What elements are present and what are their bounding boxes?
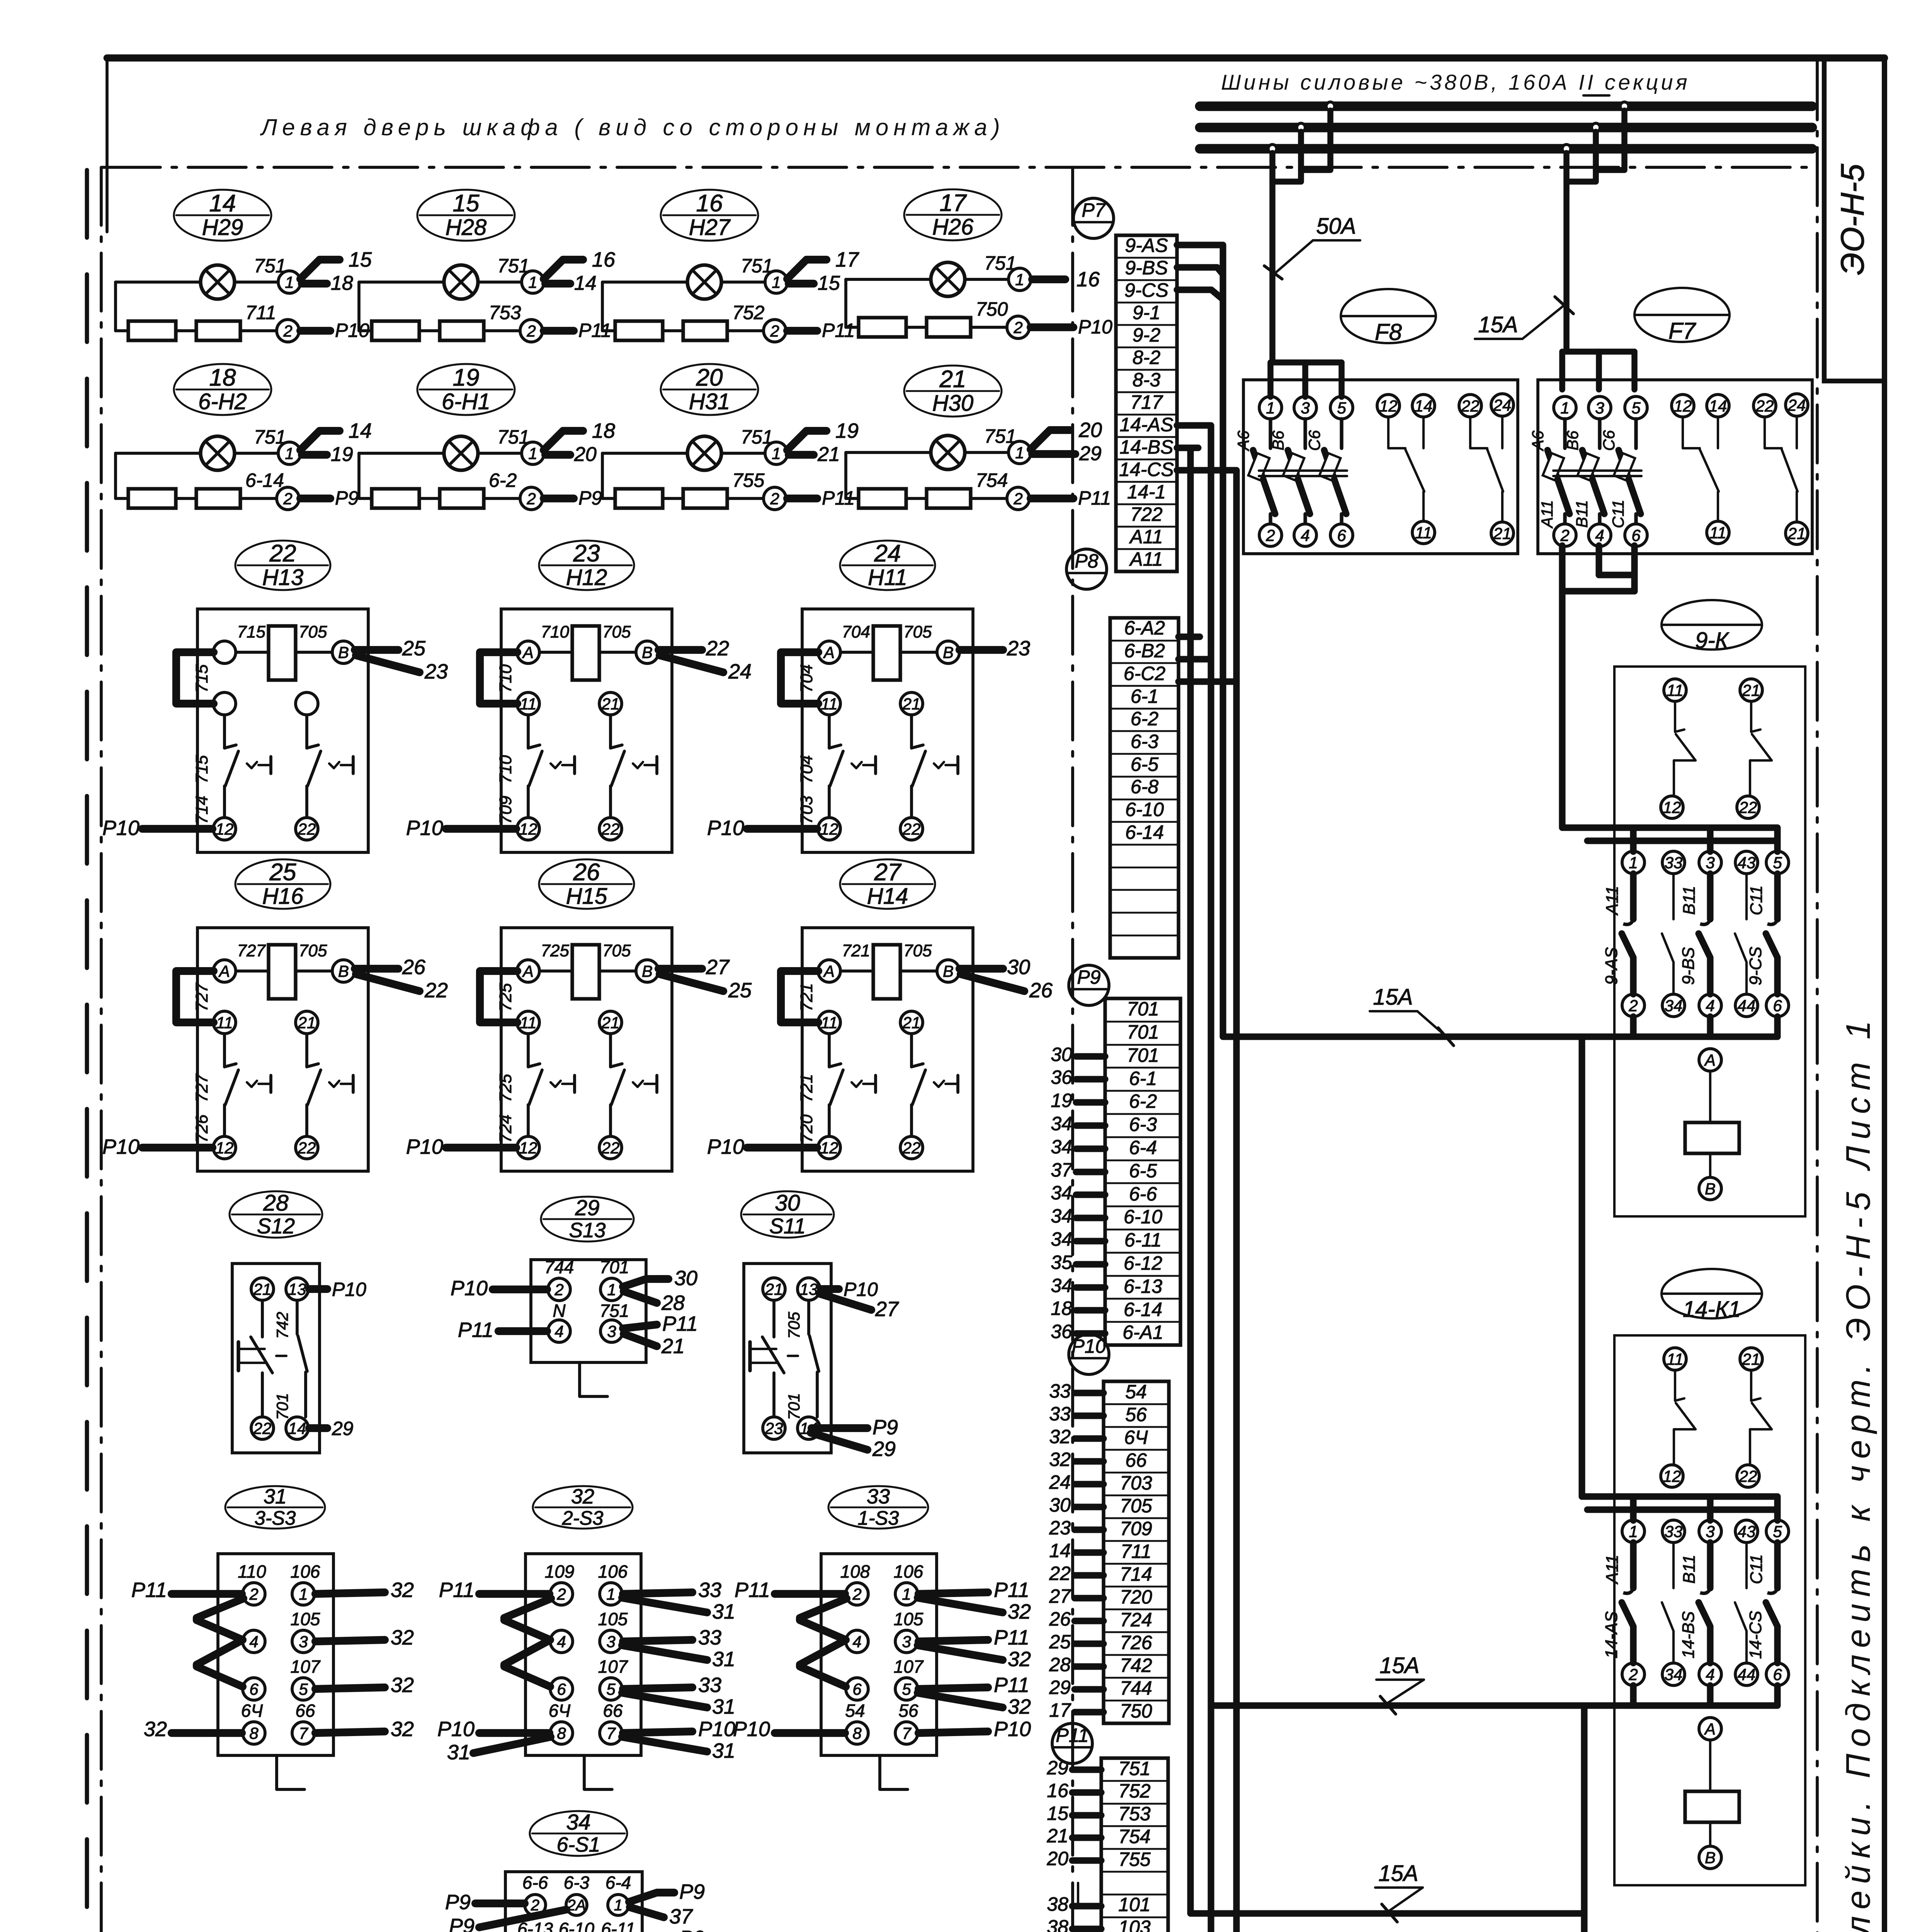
lamp Н26 — [931, 262, 965, 296]
wire bus to F7 — [1596, 111, 1624, 170]
svg-text:22: 22 — [601, 820, 620, 838]
svg-text:22: 22 — [253, 1419, 272, 1437]
svg-text:Н26: Н26 — [932, 214, 974, 240]
coil of 22 — [269, 626, 296, 680]
svg-text:27: 27 — [706, 956, 730, 979]
svg-text:Р10: Р10 — [406, 1135, 443, 1158]
svg-text:27: 27 — [874, 859, 902, 886]
wire — [918, 1640, 988, 1641]
svg-text:750: 750 — [976, 298, 1008, 320]
svg-text:12: 12 — [519, 820, 537, 838]
svg-text:6-14: 6-14 — [1124, 1299, 1162, 1320]
svg-text:S13: S13 — [569, 1219, 606, 1242]
terminal 22 of 24 — [900, 818, 923, 840]
main terminal 4 of 14-К1 — [1699, 1663, 1721, 1685]
svg-text:32: 32 — [571, 1485, 594, 1508]
svg-text:724: 724 — [1120, 1609, 1152, 1631]
svg-text:101: 101 — [1118, 1894, 1150, 1915]
wire stub — [1076, 1122, 1105, 1129]
coil terminal A of 9-К — [1699, 1049, 1721, 1071]
terminal 11 of 27 — [818, 1011, 840, 1034]
svg-text:С11: С11 — [1747, 1554, 1766, 1584]
svg-text:6-А2: 6-А2 — [1124, 617, 1165, 639]
wire stub — [1076, 1238, 1105, 1244]
svg-text:721: 721 — [797, 983, 816, 1011]
wire — [787, 495, 817, 502]
svg-text:9-1: 9-1 — [1133, 302, 1160, 323]
svg-text:33: 33 — [698, 1626, 721, 1649]
terminal 11 of 26 — [517, 1011, 539, 1034]
wire F7 outputs — [1559, 546, 1565, 591]
aux contact — [1388, 417, 1405, 448]
svg-text:В11: В11 — [1680, 886, 1699, 915]
svg-text:22: 22 — [902, 820, 921, 838]
svg-text:7: 7 — [299, 1724, 308, 1742]
svg-text:14-СS: 14-СS — [1746, 1611, 1765, 1659]
svg-text:4: 4 — [554, 1322, 563, 1340]
svg-text:21: 21 — [601, 695, 620, 713]
wire — [309, 1285, 327, 1293]
svg-text:6-2: 6-2 — [1129, 1090, 1157, 1112]
svg-text:В: В — [943, 962, 954, 980]
svg-text:27: 27 — [875, 1298, 899, 1321]
cabinet door outline left — [100, 167, 103, 1932]
svg-text:701: 701 — [1127, 1044, 1159, 1066]
aux terminal 22 — [1459, 395, 1481, 417]
lamp Н27 — [687, 265, 721, 299]
svg-text:750: 750 — [1120, 1700, 1152, 1722]
main terminal 3 of 14-К1 — [1699, 1520, 1721, 1543]
terminal strip П10 — [1104, 1381, 1169, 1723]
glue line (линия склейки) — [1816, 62, 1819, 1932]
svg-text:726: 726 — [192, 1114, 211, 1143]
svg-text:2: 2 — [1628, 997, 1638, 1015]
svg-text:8: 8 — [249, 1724, 259, 1742]
svg-text:754: 754 — [976, 469, 1008, 491]
wire — [918, 1592, 988, 1594]
wire stub — [1076, 1261, 1105, 1267]
svg-text:6-Н1: 6-Н1 — [442, 389, 490, 414]
wire P9 — [475, 1900, 525, 1907]
svg-text:16: 16 — [1077, 268, 1100, 291]
svg-text:В11: В11 — [1573, 500, 1591, 528]
svg-text:6-8: 6-8 — [1131, 776, 1158, 798]
fuse terminal 4 — [1294, 524, 1316, 546]
wire F7 to 9-K — [1562, 591, 1777, 828]
fuse block F8 — [1243, 380, 1518, 554]
aux terminal 11 of 14-К1 — [1664, 1348, 1686, 1370]
svg-text:29: 29 — [1079, 442, 1102, 465]
wire fork — [787, 260, 827, 279]
resistor of 20 — [683, 489, 727, 508]
svg-text:720: 720 — [1120, 1586, 1152, 1608]
wire — [480, 652, 517, 704]
svg-text:28: 28 — [1049, 1654, 1071, 1675]
fuse terminal 3 — [1294, 396, 1316, 419]
terminal 11 of 25 — [213, 1011, 236, 1034]
wire — [172, 1729, 242, 1737]
wire to P10 — [446, 1144, 516, 1151]
fixed contact — [1707, 1543, 1713, 1588]
svg-text:21: 21 — [298, 1014, 316, 1032]
aux terminal 14 — [1707, 395, 1729, 417]
svg-text:6-13: 6-13 — [1124, 1276, 1162, 1297]
svg-text:21: 21 — [661, 1335, 685, 1358]
svg-text:19: 19 — [835, 419, 859, 442]
svg-text:1: 1 — [772, 444, 781, 463]
bus junction — [1592, 123, 1600, 132]
wire stub — [1075, 1435, 1104, 1442]
wire — [1709, 1822, 1711, 1846]
svg-text:701: 701 — [273, 1393, 291, 1420]
wire fork — [658, 646, 702, 654]
wire fork — [959, 646, 1003, 654]
wire — [479, 1729, 549, 1737]
svg-text:Р11: Р11 — [1056, 1725, 1088, 1746]
svg-text:12: 12 — [1663, 1467, 1681, 1485]
terminal 11 of 23 — [517, 692, 539, 715]
svg-text:32: 32 — [1008, 1648, 1031, 1671]
svg-text:4: 4 — [1706, 997, 1714, 1015]
wire stub — [1075, 1686, 1104, 1692]
svg-text:705: 705 — [1120, 1495, 1152, 1517]
NC contact — [527, 715, 530, 748]
svg-text:Р9: Р9 — [679, 1927, 705, 1932]
terminal 12 of 24 — [818, 818, 840, 840]
svg-text:Н27: Н27 — [689, 215, 731, 240]
svg-text:34: 34 — [566, 1810, 590, 1835]
svg-text:9-2: 9-2 — [1133, 324, 1160, 346]
wire upper bus feed 14-K1 — [1582, 1493, 1777, 1500]
contactor 9-К — [1587, 600, 1805, 1216]
svg-text:Р10: Р10 — [733, 1718, 770, 1741]
svg-text:17: 17 — [940, 190, 967, 216]
wire bundle 14-phase — [1177, 425, 1211, 1706]
svg-text:32: 32 — [391, 1718, 414, 1741]
svg-text:106: 106 — [598, 1561, 628, 1582]
svg-text:5: 5 — [606, 1680, 616, 1698]
svg-text:21: 21 — [1493, 524, 1512, 543]
wire — [357, 282, 361, 331]
indicator lamp circuit 15 Н28 — [359, 190, 616, 342]
svg-text:105: 105 — [291, 1609, 320, 1629]
svg-text:22: 22 — [298, 1139, 316, 1157]
fixed contact — [1672, 1543, 1675, 1588]
svg-text:6-14: 6-14 — [1125, 821, 1164, 843]
resistor of 16 — [615, 321, 663, 340]
svg-text:9-СS: 9-СS — [1746, 947, 1765, 985]
terminal 1 of 34 — [608, 1895, 629, 1915]
wire fork — [300, 260, 340, 279]
coil terminal B of 14-К1 — [1699, 1846, 1721, 1869]
svg-text:Р9: Р9 — [449, 1915, 474, 1932]
wire stub P8 — [1179, 656, 1211, 662]
svg-text:14-1: 14-1 — [1127, 481, 1166, 503]
svg-text:7: 7 — [606, 1724, 616, 1742]
cam switch contact — [772, 1300, 776, 1337]
svg-text:25: 25 — [402, 637, 426, 660]
svg-text:15: 15 — [453, 190, 480, 217]
wire stub — [1072, 1766, 1101, 1773]
relay 24 Н11 — [707, 540, 1030, 852]
svg-text:2: 2 — [770, 322, 779, 340]
aux terminal 12 — [1672, 395, 1694, 417]
svg-text:11: 11 — [520, 695, 537, 713]
svg-text:Н16: Н16 — [262, 884, 304, 909]
relay 27 Н14 — [707, 859, 1053, 1171]
svg-text:23: 23 — [424, 660, 448, 683]
svg-text:14-ВS: 14-ВS — [1120, 436, 1173, 458]
wire bundle 9-phase — [1177, 245, 1223, 1037]
wire — [781, 971, 818, 1022]
NC contact — [223, 1034, 226, 1067]
svg-text:34: 34 — [1051, 1182, 1072, 1204]
svg-text:11: 11 — [520, 1014, 537, 1032]
resistor of 17 — [927, 318, 971, 337]
wire stub — [1075, 1503, 1104, 1510]
svg-text:703: 703 — [797, 796, 816, 824]
terminal 7 of 33 — [895, 1722, 918, 1744]
svg-text:6-10: 6-10 — [559, 1919, 594, 1932]
terminal B of 23 — [636, 641, 658, 663]
aux contact — [1750, 1370, 1752, 1401]
fuse terminal 2 — [1554, 524, 1576, 546]
svg-text:1: 1 — [1629, 854, 1638, 872]
svg-text:751: 751 — [600, 1301, 629, 1321]
wire stub P8 — [1179, 633, 1190, 640]
resistor of 21 — [859, 489, 906, 508]
svg-text:31: 31 — [447, 1741, 470, 1764]
svg-text:6-4: 6-4 — [1129, 1137, 1157, 1158]
wire — [544, 495, 574, 502]
svg-text:32: 32 — [391, 1578, 414, 1602]
wire — [623, 1640, 692, 1641]
svg-text:704: 704 — [797, 755, 816, 783]
svg-text:Р10: Р10 — [707, 1135, 744, 1158]
svg-text:5: 5 — [902, 1680, 911, 1698]
svg-text:725: 725 — [541, 941, 570, 960]
relay 23 Н12 — [406, 540, 752, 852]
svg-text:720: 720 — [797, 1114, 816, 1143]
svg-text:А: А — [522, 962, 534, 980]
connector Р8 — [1066, 549, 1107, 589]
terminal strip П7 — [1116, 235, 1177, 571]
wire — [544, 327, 574, 335]
svg-text:Р11: Р11 — [994, 1673, 1029, 1697]
svg-text:2-S3: 2-S3 — [562, 1507, 604, 1529]
fuse — [1563, 419, 1566, 448]
svg-text:В11: В11 — [1680, 1554, 1699, 1583]
indicator lamp circuit 20 Н31 — [602, 364, 859, 510]
svg-text:В: В — [338, 962, 349, 980]
terminal 3 of 32 — [600, 1630, 622, 1653]
wire stub — [1177, 264, 1198, 270]
svg-text:28: 28 — [263, 1190, 289, 1216]
svg-text:715: 715 — [237, 622, 266, 641]
lamp Н28 — [444, 265, 478, 299]
svg-text:31: 31 — [712, 1648, 735, 1671]
svg-text:А11: А11 — [1538, 500, 1556, 529]
lamp Н30 — [931, 435, 965, 469]
svg-text:34: 34 — [1665, 997, 1683, 1015]
terminal 2 of 21 — [1007, 487, 1029, 510]
resistor of 19 — [440, 489, 484, 508]
svg-text:724: 724 — [496, 1114, 515, 1143]
terminal 2 of 20 — [764, 487, 786, 510]
svg-text:14: 14 — [574, 272, 597, 294]
svg-text:6-2: 6-2 — [489, 469, 517, 491]
fuse terminal 5 — [1625, 396, 1647, 419]
svg-text:107: 107 — [598, 1656, 628, 1677]
svg-text:А: А — [1704, 1051, 1716, 1069]
svg-text:22: 22 — [269, 540, 296, 567]
svg-text:6Ч: 6Ч — [241, 1701, 264, 1721]
svg-text:22: 22 — [601, 1139, 620, 1157]
svg-text:19: 19 — [453, 364, 480, 391]
wire stub — [1177, 444, 1198, 451]
svg-text:22: 22 — [902, 1139, 921, 1157]
svg-text:701: 701 — [600, 1257, 629, 1277]
svg-text:44: 44 — [1738, 997, 1756, 1015]
terminal strip П9 — [1105, 998, 1180, 1345]
wire lower bus — [1630, 1017, 1636, 1037]
wire to P10 — [747, 825, 817, 833]
wire to P10 — [142, 825, 213, 833]
wire stub — [1075, 1572, 1104, 1578]
svg-text:6-3: 6-3 — [1129, 1114, 1157, 1135]
terminal 23 of 30 — [763, 1417, 785, 1439]
wire stub P8 — [1179, 678, 1236, 685]
main terminal 2 of 14-К1 — [1622, 1663, 1645, 1685]
terminal B of 27 — [937, 960, 959, 982]
wire — [315, 1731, 385, 1733]
svg-text:8-2: 8-2 — [1133, 347, 1160, 368]
terminal 1 of 17 — [1009, 268, 1031, 291]
resistor of 18 — [196, 489, 240, 508]
wire to P10 — [142, 1144, 213, 1151]
svg-text:14-АS: 14-АS — [1602, 1611, 1621, 1658]
wire — [1031, 323, 1073, 331]
wire lower bus — [1630, 1685, 1636, 1706]
terminal 2А of 34 — [566, 1895, 587, 1915]
wire stub — [1075, 1458, 1104, 1464]
wire — [480, 971, 517, 1022]
svg-text:17: 17 — [835, 248, 859, 271]
svg-text:6-S1: 6-S1 — [557, 1833, 600, 1856]
selector switch 31 3-S3 — [131, 1485, 414, 1789]
fuse terminal 6 — [1330, 524, 1353, 546]
terminal 7 of 32 — [600, 1722, 622, 1744]
terminal B of 26 — [636, 960, 658, 982]
wire stub — [1072, 1812, 1101, 1818]
coil of 14-К1 — [1685, 1791, 1739, 1822]
wire — [114, 453, 117, 498]
svg-text:34: 34 — [1051, 1275, 1072, 1296]
svg-text:21: 21 — [902, 695, 921, 713]
svg-text:21: 21 — [253, 1280, 272, 1298]
bus junction — [1326, 102, 1335, 111]
wire stub — [1076, 1145, 1105, 1152]
svg-text:23: 23 — [765, 1419, 783, 1437]
svg-text:34: 34 — [1051, 1136, 1072, 1158]
aux terminal 12 of 9-К — [1661, 796, 1683, 818]
contactor 14-К1 — [1587, 1269, 1805, 1885]
terminal 21 of 22 — [296, 692, 318, 715]
svg-text:12: 12 — [216, 1139, 234, 1157]
terminal 22 of 26 — [599, 1136, 622, 1159]
svg-text:17: 17 — [1049, 1699, 1071, 1721]
svg-text:Р10: Р10 — [707, 816, 744, 840]
wire — [623, 1687, 692, 1689]
svg-text:26: 26 — [402, 956, 426, 979]
svg-text:66: 66 — [295, 1701, 315, 1721]
svg-text:1: 1 — [299, 1585, 308, 1603]
svg-text:1: 1 — [902, 1585, 911, 1603]
wire fork — [544, 260, 583, 279]
svg-text:714: 714 — [1120, 1563, 1152, 1585]
selector switch 32 2-S3 — [437, 1485, 735, 1789]
resistor of 14 — [196, 321, 240, 340]
wire — [1709, 1071, 1711, 1122]
wire stub — [1077, 1883, 1079, 1905]
svg-text:704: 704 — [842, 622, 870, 641]
terminal 1 of 32 — [600, 1583, 622, 1605]
svg-text:754: 754 — [1118, 1826, 1150, 1847]
svg-text:С11: С11 — [1747, 885, 1766, 915]
svg-text:8: 8 — [557, 1724, 566, 1742]
svg-text:1: 1 — [1015, 270, 1024, 289]
svg-text:21: 21 — [1742, 1350, 1760, 1368]
terminal 2 of 17 — [1007, 316, 1029, 338]
wire — [844, 279, 847, 327]
wire stub — [1177, 467, 1198, 473]
svg-text:15: 15 — [818, 272, 840, 294]
svg-text:721: 721 — [842, 941, 870, 960]
terminal 6 of 33 — [846, 1678, 868, 1700]
svg-text:1: 1 — [285, 444, 294, 463]
svg-text:А: А — [823, 962, 835, 980]
svg-text:33: 33 — [698, 1578, 721, 1602]
svg-text:701: 701 — [1127, 1021, 1159, 1043]
switch 28 S12 — [230, 1190, 366, 1453]
terminal 5 of 31 — [292, 1678, 315, 1700]
svg-text:14: 14 — [288, 1419, 306, 1437]
terminal 3 of 31 — [292, 1630, 315, 1653]
svg-text:Н15: Н15 — [566, 884, 607, 909]
indicator lamp circuit 17 Н26 — [846, 189, 1112, 338]
svg-text:6-С2: 6-С2 — [1124, 663, 1166, 684]
svg-text:6-В2: 6-В2 — [1124, 640, 1165, 662]
svg-text:725: 725 — [496, 1074, 515, 1102]
svg-text:19: 19 — [1051, 1090, 1072, 1111]
aux terminal 22 of 14-К1 — [1737, 1465, 1759, 1487]
wire stub — [1177, 448, 1190, 456]
wire zigzag — [504, 1599, 551, 1687]
svg-text:31: 31 — [712, 1739, 735, 1762]
wire stub — [1075, 1412, 1104, 1419]
svg-text:1: 1 — [1560, 399, 1569, 417]
lamp 6-Н2 — [201, 436, 235, 470]
svg-text:33: 33 — [698, 1673, 721, 1697]
wire — [775, 1590, 845, 1598]
svg-text:106: 106 — [291, 1561, 320, 1582]
terminal 2 of 16 — [764, 320, 786, 342]
svg-text:6-1: 6-1 — [1131, 685, 1158, 707]
indicator lamp circuit 16 Н27 — [602, 190, 859, 342]
svg-text:3: 3 — [1706, 854, 1714, 872]
left trim line — [85, 170, 89, 1932]
wire stub — [1075, 1663, 1104, 1670]
